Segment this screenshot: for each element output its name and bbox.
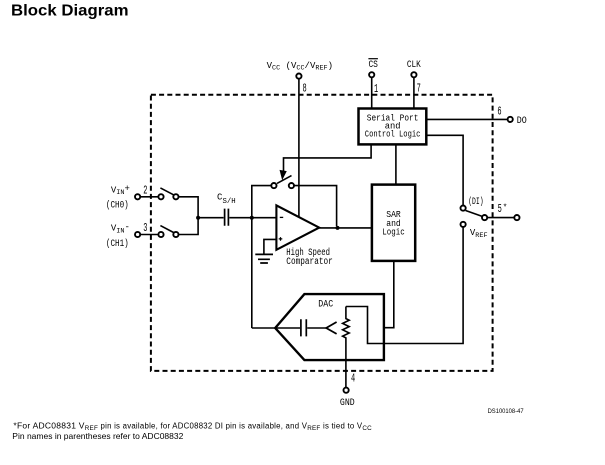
- svg-text:7: 7: [417, 83, 421, 96]
- switch SW3 arm: [466, 211, 483, 217]
- pin 3 terminal: [135, 232, 140, 237]
- DI contact: [461, 206, 466, 211]
- wire capacitor to node B: [229, 217, 276, 219]
- DAC cap wire left: [275, 327, 300, 329]
- dashed device boundary: [151, 95, 493, 371]
- pin 1 terminal CS: [369, 72, 374, 77]
- pin 8 wire (VCC to comparator): [298, 79, 300, 217]
- pin 2 terminal: [135, 194, 140, 199]
- svg-text:Control Logic: Control Logic: [365, 128, 421, 139]
- switch SW3 pivot: [482, 215, 487, 220]
- svg-text:DO: DO: [517, 116, 527, 127]
- switch SW2 arm: [160, 226, 174, 233]
- svg-text:CLK: CLK: [407, 60, 421, 71]
- svg-text:(CH0): (CH0): [106, 200, 129, 212]
- VREF wire to DAC ladder: [346, 227, 463, 343]
- svg-text:CS: CS: [368, 60, 378, 71]
- wire SAR to DAC: [384, 261, 394, 328]
- svg-text:S/H: S/H: [223, 198, 236, 206]
- comparator minus: [280, 216, 283, 218]
- pin 1 wire: [371, 78, 373, 109]
- svg-text:8: 8: [303, 82, 307, 95]
- pin 2 wire: [140, 196, 158, 198]
- svg-text:GND: GND: [340, 398, 355, 409]
- node A junction: [196, 216, 200, 220]
- wire pivot to pin 5: [487, 217, 514, 219]
- comparator plus: [279, 237, 283, 241]
- wire node A to capacitor: [198, 217, 224, 219]
- wire SW1 to node A: [179, 197, 199, 218]
- SAR and logic box U3: [372, 185, 415, 261]
- switch SW1 arm: [160, 188, 174, 195]
- node B junction: [250, 216, 254, 220]
- ground: [255, 254, 273, 263]
- svg-text:(CH1): (CH1): [106, 238, 129, 250]
- switch SW1 pivot: [173, 194, 178, 199]
- svg-text:5: 5: [498, 203, 502, 216]
- pin 6 terminal DO: [508, 117, 513, 122]
- pin 4 terminal GND: [344, 388, 349, 393]
- control arrowhead: [280, 171, 286, 179]
- feedback wire node B to DAC: [252, 327, 275, 329]
- wire serial port to sample switch (control): [284, 144, 372, 171]
- switch SW2 pivot: [173, 232, 178, 237]
- wire SW4 to node C: [294, 186, 337, 226]
- wire serial port to SAR: [395, 144, 397, 184]
- svg-text:Pin names in parentheses refer: Pin names in parentheses refer to ADC088…: [12, 431, 183, 441]
- wire SW2 to node A: [179, 218, 199, 235]
- svg-text:1: 1: [374, 83, 378, 96]
- sample switch SW4 arm: [277, 176, 292, 184]
- wire serial port to DI switch: [426, 135, 463, 205]
- svg-text:2: 2: [143, 185, 147, 198]
- serial port and control logic box U2: [359, 109, 427, 145]
- svg-text:DS100108-47: DS100108-47: [488, 409, 525, 415]
- svg-text:6: 6: [497, 106, 501, 119]
- sample switch SW4 contact right: [289, 183, 294, 188]
- node C junction: [336, 226, 340, 230]
- VREF contact: [461, 222, 466, 227]
- DAC wiper arrow: [326, 322, 336, 334]
- pin 8 terminal VCC: [296, 74, 301, 79]
- capacitor CS/H plates: [225, 209, 229, 226]
- DAC capacitor plates: [301, 319, 306, 336]
- comparator U1: [276, 205, 319, 249]
- DAC cap wire right: [307, 327, 326, 329]
- svg-text:Comparator: Comparator: [286, 257, 333, 268]
- svg-text:Block Diagram: Block Diagram: [11, 3, 129, 20]
- svg-text:Logic: Logic: [382, 226, 404, 237]
- wire serial port to DO: [426, 118, 507, 120]
- resistor ladder R1: [343, 307, 350, 388]
- svg-text:3: 3: [143, 222, 147, 235]
- sample switch SW4 contact left: [271, 183, 276, 188]
- comparator + input wire: [264, 239, 277, 253]
- pin 7 terminal CLK: [411, 72, 416, 77]
- wire comparator output to SAR: [319, 227, 372, 229]
- pin 3 wire: [140, 234, 158, 236]
- switch SW2 contact left: [158, 232, 163, 237]
- pin 7 wire: [413, 78, 415, 109]
- svg-text:4: 4: [351, 372, 355, 385]
- feedback riser node B: [252, 186, 272, 328]
- switch SW1 contact left: [158, 194, 163, 199]
- DAC outline: [275, 294, 384, 360]
- svg-text:*: *: [503, 204, 508, 213]
- svg-text:(DI): (DI): [468, 196, 483, 208]
- svg-text:DAC: DAC: [318, 300, 333, 311]
- pin 5 terminal: [514, 215, 519, 220]
